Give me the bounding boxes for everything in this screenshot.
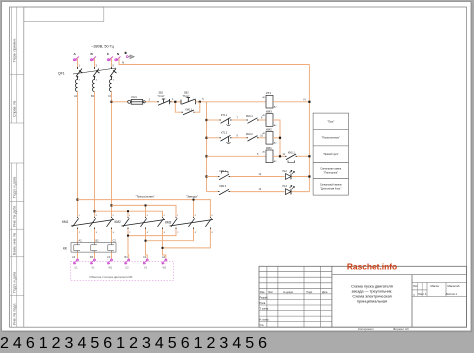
margin vertical texts (13, 38, 17, 325)
svg-text:КМ1.3: КМ1.3 (220, 185, 227, 188)
relay coil KM1 (266, 150, 273, 163)
node 11 label (283, 153, 286, 156)
contact KM1.3 NO with delay (218, 172, 230, 180)
svg-text:Лит.: Лит. (413, 284, 418, 288)
svg-text:Перв. примен.: Перв. примен. (13, 38, 17, 62)
node bus row3 (205, 137, 207, 139)
function label box texts (320, 120, 343, 190)
wire KM3 pole2 merge to V2 (146, 229, 194, 241)
wire KM3 pole3 merge to W2 (163, 229, 211, 248)
contactor KM2 label (115, 220, 122, 224)
wire row3 coil right to drop (273, 137, 280, 139)
top-left reference box (24, 7, 104, 22)
svg-text:N: N (122, 61, 124, 65)
thermal release coil phase B (93, 79, 95, 92)
wire row1 to coil KT1 (207, 101, 267, 103)
contact KT1.3 label row4 (288, 151, 295, 154)
contact KM1.4 NO row6 (218, 189, 230, 195)
wire branch A to star contacts (78, 200, 211, 217)
wire phase B drop to QF1 (94, 58, 96, 67)
node branch A junction (193, 199, 195, 201)
svg-text:Масса: Масса (431, 284, 440, 288)
wire branch B to delta pole3 (95, 211, 163, 217)
contact KT1.1 label (221, 114, 228, 117)
pin numbers KM3 contacts (177, 215, 214, 234)
wire KM1.1 bypass loop (175, 102, 200, 112)
node N label top (122, 61, 124, 65)
contact KT1.1 NO (220, 118, 232, 126)
node 3 label (149, 98, 151, 101)
title block document name (351, 284, 393, 304)
wire SB2 to node5 (196, 101, 207, 103)
button SB2 start NO (181, 97, 196, 104)
contactor KM1 link bar (71, 220, 114, 227)
svg-text:Взам. инв. №: Взам. инв. № (13, 233, 17, 255)
node tap phase B branch (93, 210, 95, 212)
contact KM1.2 label row2 (246, 115, 253, 118)
breaker QF1 label (58, 72, 65, 76)
svg-text:КМ2: КМ2 (115, 220, 122, 224)
input terminal phase A (73, 57, 79, 61)
pin numbers QF1 bottom (0, 335, 39, 352)
input terminal N (115, 57, 121, 61)
pin numbers KM1 contacts (39, 335, 116, 352)
svg-text:"Переключение": "Переключение" (322, 137, 340, 140)
svg-text:КМ1.2: КМ1.2 (246, 133, 253, 136)
node N bus row4 (308, 155, 310, 157)
pin labels A2 B2 C2 (79, 239, 117, 243)
pin numbers KM1 contacts (79, 215, 115, 234)
title block grid (259, 266, 467, 327)
svg-text:В3: В3 (90, 255, 94, 259)
node 10 label (260, 134, 263, 137)
svg-text:№ докум.: № докум. (283, 291, 294, 294)
wire phase A vertical run (77, 92, 79, 218)
svg-text:Лист 1: Лист 1 (418, 292, 427, 296)
svg-text:Масштаб: Масштаб (448, 284, 460, 288)
node bus row4 (205, 155, 207, 157)
node N bus row5 (308, 175, 310, 177)
thermal relay heater phase B (91, 243, 97, 252)
svg-text:Лист: Лист (268, 291, 274, 294)
wire N bus vertical (308, 65, 310, 192)
svg-text:Н. контр.: Н. контр. (260, 319, 270, 322)
thermal relay KK label (63, 247, 67, 251)
svg-text:КМ3: КМ3 (165, 221, 172, 225)
label Звезда (186, 195, 198, 199)
wire row3 mid (232, 137, 247, 139)
thermal release coil phase C (110, 79, 112, 92)
wire row6 to lamp (230, 191, 285, 193)
wire row3 to coil KM2 (259, 137, 267, 139)
pin numbers KM3 contacts (194, 335, 267, 352)
relay coil KM1 label (266, 146, 272, 150)
thermal release coil phase A (76, 79, 78, 92)
svg-text:Пров.: Пров. (260, 302, 267, 305)
contactor KM3 label (165, 221, 172, 225)
svg-text:Разраб.: Разраб. (260, 296, 269, 299)
supply direction arrow (125, 52, 135, 59)
svg-text:КМ3: КМ3 (266, 110, 272, 114)
fuse FU1 label (132, 95, 138, 99)
frame inner left line (23, 7, 25, 327)
svg-text:КК: КК (63, 247, 67, 251)
svg-text:Сигнальный звонок: Сигнальный звонок (320, 184, 343, 187)
title block header texts (260, 291, 328, 327)
node merge W2 (162, 247, 164, 249)
breaker QF1 pole C (110, 67, 117, 79)
contact KM1.2 label row3 (246, 133, 253, 136)
fuse FU1 (128, 99, 146, 104)
svg-text:А3: А3 (72, 255, 76, 259)
coil KM2 pin labels (263, 132, 278, 145)
svg-text:КМ1: КМ1 (62, 220, 69, 224)
wire N elbow to N bus (119, 58, 309, 65)
svg-text:N: N (304, 97, 306, 101)
relay coil KT1 (266, 95, 273, 108)
motor terminal U1 (74, 259, 79, 264)
pin 1 marks QF1 (79, 64, 115, 68)
svg-text:Подп.: Подп. (307, 291, 314, 294)
svg-text:В4: В4 (125, 255, 129, 259)
input terminal phase C (107, 57, 113, 61)
node drop row3 (279, 137, 281, 139)
wire phase B vertical run (94, 92, 96, 218)
svg-text:Т. контр.: Т. контр. (260, 308, 270, 311)
margin column lines (10, 7, 24, 327)
wire row1 coil to N bus (273, 101, 309, 103)
wire row5 from bus (207, 176, 219, 178)
relay coil KM2 (266, 132, 273, 145)
node control tap on phase C (110, 101, 112, 103)
node N bus row1 (308, 101, 310, 103)
node merge U2 (127, 235, 129, 237)
motor terminal labels top (72, 255, 166, 259)
contact KM1.1 bypass label (186, 108, 193, 111)
breaker QF1 pole B (93, 67, 100, 79)
svg-text:"Треугольник": "Треугольник" (135, 195, 154, 199)
wire KM3 pole1 merge to U2 (128, 229, 176, 236)
node 4 junction (172, 98, 176, 103)
svg-text:А4: А4 (162, 255, 166, 259)
breaker QF1 pivot dots (77, 76, 113, 78)
svg-text:"Прямой пуск": "Прямой пуск" (323, 153, 339, 156)
svg-text:Дата: Дата (322, 291, 328, 294)
wire KM1 outputs to thermal relay (78, 229, 112, 243)
svg-text:С4: С4 (143, 255, 147, 259)
motor terminal U2 (125, 259, 130, 264)
wire row5 to lamp (230, 176, 285, 178)
svg-text:В2: В2 (96, 239, 100, 243)
node 12 label (259, 173, 262, 176)
lamp HL3 label (283, 185, 288, 188)
lamp HL2 LED (286, 170, 295, 179)
svg-text:HL2: HL2 (283, 170, 288, 173)
svg-text:Raschet.info: Raschet.info (347, 262, 397, 272)
wire branch C to star pole1 (112, 205, 177, 217)
node merge V2 (145, 240, 147, 242)
wire row2 coil right (273, 120, 280, 156)
wire row4 from bus (207, 155, 267, 157)
coil KT1 pin labels (263, 96, 278, 109)
svg-text:КТ1.2: КТ1.2 (221, 132, 228, 135)
svg-text:Подп. и дата: Подп. и дата (13, 272, 17, 293)
title block right texts (413, 284, 460, 296)
wire control left bus (206, 102, 208, 192)
motor M1 winding dashed box (71, 262, 174, 281)
svg-text:Утв.: Утв. (260, 324, 265, 327)
button SB2 label (183, 92, 190, 98)
contact KM1.2 NO row2 (247, 118, 259, 124)
svg-text:А2: А2 (79, 239, 83, 243)
node tap phase C branch (110, 204, 112, 206)
contactor KM1 main contacts (73, 217, 113, 229)
wire row5 lamp to N bus (292, 176, 310, 178)
lamp HL2 label (283, 170, 288, 173)
svg-text:С2: С2 (113, 239, 117, 243)
wire phase A drop to QF1 (77, 58, 79, 67)
wire row4 to N bus (297, 155, 309, 157)
label Треугольник (135, 195, 154, 199)
motor terminal V1 (91, 259, 96, 264)
wire branch B drop to KM2 pole1 (127, 211, 129, 217)
svg-text:Подп. и дата: Подп. и дата (13, 177, 17, 198)
coil KM1 pin labels (263, 150, 278, 163)
svg-text:Обмотка статора двигателя М1: Обмотка статора двигателя М1 (89, 275, 133, 279)
thermal relay KK frame (71, 243, 116, 253)
node branch B junction (127, 210, 129, 212)
relay coil KM3 label (266, 110, 272, 114)
node 5 junction (199, 98, 205, 103)
node 5 label row4 (257, 153, 259, 156)
wire SB1 to node4 (172, 101, 181, 103)
svg-text:FU1: FU1 (132, 95, 138, 99)
svg-text:КМ2: КМ2 (266, 127, 272, 131)
svg-text:КМ1.1: КМ1.1 (246, 115, 253, 118)
motor terminal W2 (162, 259, 167, 264)
button SB1 label (158, 92, 165, 98)
node bus row2 (205, 119, 207, 121)
wire KK to motor terminals (78, 252, 112, 259)
svg-text:Листов 1: Листов 1 (446, 292, 458, 296)
wire KM2 outputs to motor terminals (128, 229, 166, 259)
svg-text:QF1: QF1 (58, 72, 65, 76)
thermal relay heater phase A (74, 243, 80, 252)
wire row6 from bus (207, 191, 219, 193)
function label boxes column (313, 113, 348, 195)
node branch C junction (145, 204, 147, 206)
node 13 label (259, 188, 262, 191)
wire phase C to fuse (112, 101, 128, 103)
svg-text:"Стоп": "Стоп" (158, 95, 165, 98)
contact KM1.2 NO row3 (247, 136, 259, 142)
wire row2 from bus (207, 119, 220, 121)
contact KM1.4 label row6 (220, 185, 227, 188)
svg-text:КТ1.1: КТ1.1 (221, 114, 228, 117)
pin numbers QF1 bottom (79, 79, 115, 81)
title block logo Raschet.info (347, 262, 397, 272)
motor terminal labels bottom (75, 267, 167, 270)
svg-text:Справ. №: Справ. № (13, 101, 17, 117)
svg-text:принципиальная: принципиальная (357, 299, 387, 304)
svg-text:"Длительная блок.": "Длительная блок." (320, 188, 341, 191)
contact KT1.2 NC (220, 135, 232, 143)
phase labels A B C N (73, 52, 119, 56)
relay coil KM3 (266, 114, 273, 127)
svg-text:КТ1: КТ1 (266, 91, 271, 95)
node 9 label (237, 134, 239, 137)
contact KM1.1 bypass NO (182, 110, 195, 115)
motor M1 winding label (89, 275, 133, 279)
contactor KM2 link bar (122, 220, 166, 227)
node N label row1 (304, 97, 306, 101)
svg-text:"Пуск": "Пуск" (327, 120, 334, 123)
wire branch A drop to KM3 pole2 (193, 200, 195, 217)
motor terminal V2 (143, 259, 148, 264)
wire row4 coil right (273, 155, 285, 157)
wire row3 from bus (207, 137, 220, 139)
breaker QF1 common bar (73, 68, 116, 74)
relay coil KM2 label (266, 127, 272, 131)
node tap phase A branch (76, 199, 78, 201)
contactor KM3 link bar (170, 220, 214, 227)
breaker QF1 pole A (76, 67, 83, 79)
input terminal phase B (90, 57, 96, 61)
wire row2 mid (232, 119, 247, 121)
contactor KM1 label (62, 220, 69, 224)
node bus row5 (205, 175, 207, 177)
wire branch C drop to KM2 pole2 (145, 205, 147, 217)
node 7 label (237, 117, 239, 120)
wire fuse to SB1 (145, 101, 157, 103)
svg-text:Изм.: Изм. (260, 291, 265, 294)
wire row6 lamp to N bus (292, 191, 310, 193)
svg-text:HL3: HL3 (283, 185, 288, 188)
bottom margin captions (358, 327, 409, 331)
wire labels A1 B1 C1 (74, 94, 112, 98)
svg-text:"Перегрузка": "Перегрузка" (324, 171, 338, 174)
svg-text:Сигнальная лампа: Сигнальная лампа (320, 167, 341, 170)
wire phase C drop to QF1 (111, 58, 113, 67)
lamp HL3 LED (286, 185, 295, 194)
svg-text:КМ1: КМ1 (266, 146, 272, 150)
pin numbers KM2 contacts (129, 215, 166, 234)
pin numbers KM2 contacts (116, 335, 193, 352)
coil KM3 pin labels (263, 114, 278, 127)
contact KM1.3 label row5 (220, 170, 227, 173)
wire phase C vertical run (111, 92, 113, 218)
wire row2 to coil KM3 (259, 119, 267, 121)
svg-text:КМ1.1: КМ1.1 (288, 151, 295, 154)
svg-text:Инв. № подл.: Инв. № подл. (13, 303, 17, 325)
motor terminal W1 (108, 259, 113, 264)
relay coil KT1 label (266, 91, 271, 95)
thermal relay heater phase C (108, 243, 114, 252)
svg-text:С3: С3 (107, 255, 111, 259)
node drop joins row4 (279, 155, 281, 157)
contactor KM3 star contacts (171, 217, 212, 229)
supply label ~380V 50Hz (91, 45, 115, 49)
contact KT1.2 label (221, 132, 228, 135)
svg-text:~380В, 50 Гц: ~380В, 50 Гц (91, 45, 115, 49)
svg-text:Инв. № дубл.: Инв. № дубл. (13, 205, 17, 227)
svg-text:"Звезда": "Звезда" (186, 195, 198, 199)
node 8 label (261, 117, 263, 120)
contactor KM2 delta contacts (123, 217, 164, 229)
contact KT1.3 delayed NC (285, 154, 297, 163)
button SB1 stop NC (157, 99, 172, 105)
